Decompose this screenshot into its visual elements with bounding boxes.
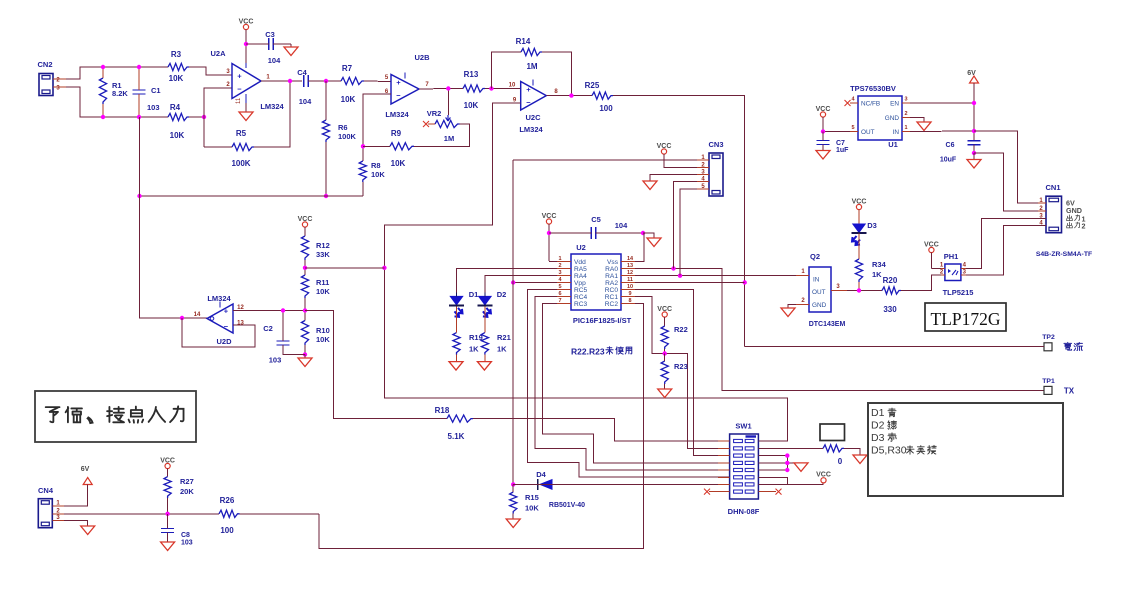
wire CN2 pin3 to bottom rail [66,87,168,117]
svg-text:R26: R26 [220,496,235,505]
resistor R11 [301,275,330,298]
label box yobi setten input [35,391,196,442]
connector CN4 [38,486,64,528]
svg-text:R11: R11 [316,278,329,287]
LED D3 [852,221,877,245]
svg-text:OUT: OUT [812,289,826,296]
transistor Q2 DTC143EM [796,252,847,328]
svg-text:10K: 10K [525,504,539,513]
svg-text:D4: D4 [536,470,546,479]
wire RA4 to D2 [485,276,557,297]
svg-text:VCC: VCC [657,143,672,150]
svg-text:10uF: 10uF [940,157,957,164]
svg-text:U2D: U2D [216,337,232,346]
ground right of R30 [844,448,867,463]
svg-text:R25: R25 [585,81,600,90]
junction R8-R9-minus node [361,144,365,148]
junction C1 top [137,65,141,69]
resistor R30 0 ohm [823,445,844,466]
svg-text:1: 1 [558,256,561,262]
svg-text:VCC: VCC [160,457,175,464]
svg-text:10K: 10K [341,95,356,104]
potentiometer VR2 [427,109,460,143]
resistor R13 [463,70,485,110]
svg-text:CN3: CN3 [708,140,723,149]
photocoupler PH1 TLP5215 [940,252,974,297]
connector CN2 [37,60,66,96]
power 6V CN4 [81,466,92,485]
svg-text:100K: 100K [338,132,357,141]
wire 6V rail down [973,83,975,141]
power 6V battery [967,70,978,83]
svg-text:RC5: RC5 [574,287,588,294]
svg-text:R21: R21 [497,333,511,342]
capacitor C3 [246,30,291,65]
resistor R9 [390,129,414,168]
svg-text:5: 5 [558,284,561,290]
resistor R6 [322,81,356,196]
svg-text:13: 13 [627,263,633,269]
resistor R5 [231,129,254,168]
svg-text:Vss: Vss [607,259,619,266]
svg-text:R27: R27 [180,477,194,486]
svg-text:RC4: RC4 [574,294,588,301]
svg-text:+: + [396,78,401,87]
svg-text:1M: 1M [526,62,537,71]
power VCC SW1 [816,472,831,483]
svg-text:100K: 100K [231,159,250,168]
svg-text:C5: C5 [591,215,601,224]
svg-text:1uF: 1uF [836,147,849,154]
svg-text:1K: 1K [872,270,882,279]
resistor R21 [481,307,510,362]
svg-text:R3: R3 [171,50,182,59]
svg-text:8: 8 [628,298,631,304]
svg-text:LM324: LM324 [207,294,231,303]
junction C2 top node [281,308,285,312]
svg-text:DHN-08F: DHN-08F [728,507,760,516]
wire CN2 pin2 to top rail [66,67,168,79]
wire RA0 to TP1 [635,269,1044,391]
capacitor C6 [940,141,981,164]
svg-text:TP2: TP2 [1042,334,1055,341]
resistor R1 [99,67,128,117]
dip switch SW1 DHN-08F [718,422,770,517]
junction Q2 out node [857,288,861,292]
wire R7 to U2B plus [364,80,391,83]
test point TP1 [1042,378,1075,396]
capacitor C4 [297,68,312,106]
svg-text:5: 5 [851,125,854,131]
op-amp U2A [210,49,284,111]
svg-text:TLP172G: TLP172G [931,309,1001,329]
junction 6V-IN node [972,129,976,133]
wire R25 to current sense net [613,96,745,347]
svg-text:EN: EN [890,101,899,108]
power VCC U1 OUT [816,106,831,132]
svg-text:6V: 6V [967,70,976,77]
svg-text:10: 10 [627,284,633,290]
capacitor C1 [133,67,161,117]
wire RA1 to Q2 [635,275,809,277]
svg-text:RB501V-40: RB501V-40 [549,502,585,509]
svg-text:6: 6 [558,291,561,297]
svg-text:R7: R7 [342,64,353,73]
junction C1 bottom [137,115,141,119]
svg-text:CN1: CN1 [1045,183,1060,192]
svg-text:LM324: LM324 [260,102,284,111]
LED D1 [449,290,478,317]
wire ground rail y196 [139,195,363,197]
svg-text:U2B: U2B [414,53,430,62]
op-amp U2C [509,80,559,135]
svg-text:11: 11 [236,97,242,104]
resistor R10 [301,321,330,346]
svg-text:VR2: VR2 [427,109,442,118]
junction C4-R7-R6 node [324,79,328,83]
power VCC U2A [239,18,254,63]
wire CN3 pin4 to RA0 [674,182,698,269]
svg-text:103: 103 [181,540,193,547]
junction C5 right node [641,231,645,235]
junction R11 bottom node [303,308,307,312]
resistor R14 [516,37,542,71]
wire RA5 to D1 [457,269,558,297]
wire RC3 to SW row4 [543,304,730,463]
junction row5 node [785,468,789,472]
wire OUT wire [823,131,850,133]
wire U2C minus net [384,103,787,441]
no-connect X SW1 row8 right [758,489,781,495]
svg-text:C2: C2 [263,324,273,333]
svg-text:TP1: TP1 [1042,378,1055,385]
svg-text:12: 12 [627,270,633,276]
svg-text:Vpp: Vpp [574,280,586,287]
op-amp U2D [194,294,245,346]
ground Q2 pin2 [781,305,796,317]
svg-text:33K: 33K [316,250,330,259]
wire feedback vertical to U2A minus [204,88,232,147]
capacitor C2 [263,311,305,365]
wire Vss wire [635,233,644,262]
ground CN4 pin3 [64,521,95,535]
svg-text:7: 7 [558,298,561,304]
junction VCC-C5 node [547,231,551,235]
svg-text:R6: R6 [338,123,348,132]
svg-text:D2: D2 [497,290,507,299]
svg-text:13: 13 [237,321,244,327]
svg-text:OUT: OUT [861,129,875,136]
svg-text:R34: R34 [872,260,887,269]
svg-text:NC/FB: NC/FB [861,101,880,108]
resistor R3 [168,50,189,83]
junction U2A output node [288,79,292,83]
LED D2 [477,290,506,317]
wire PH1 pin4 to CN1 pin3 [966,218,1046,268]
svg-text:Q2: Q2 [810,252,820,261]
svg-text:103: 103 [269,356,282,365]
junction U2B out node [446,86,450,90]
capacitor C7 [817,132,850,155]
junction U2C out node [569,93,573,97]
ground below C6 [967,153,981,168]
svg-text:10K: 10K [316,335,330,344]
connector CN3 [697,140,724,196]
svg-text:10K: 10K [170,131,185,140]
svg-text:8.2K: 8.2K [112,89,128,98]
junction OUT node [821,129,825,133]
wire RC5 to SW row6 [528,290,730,477]
no-connect X at VR2 [423,121,435,127]
svg-text:IN: IN [893,129,900,136]
svg-text:CN2: CN2 [37,60,52,69]
wire plus line to R18 drop [305,311,447,419]
svg-text:D1: D1 [871,407,885,419]
regulator U1 TPS76530BV [850,84,910,149]
ground below R19 [449,362,463,371]
wire R20 to PH1 pin2 [901,275,941,291]
svg-text:10: 10 [509,83,516,89]
svg-text:GND: GND [885,115,900,122]
wire R11 to R10 [304,298,306,321]
svg-text:VCC: VCC [816,106,831,113]
junction R1 top [101,65,105,69]
wire R9 left [363,145,390,147]
wire Vpp line [513,282,557,284]
junction row4 node [785,461,789,465]
junction R22-R23 node [663,351,667,355]
svg-text:14: 14 [194,312,201,318]
ground below C7 [816,151,830,160]
power VCC R27 [160,457,175,476]
svg-text:3: 3 [904,97,907,103]
junction RA2 junction [743,280,747,284]
svg-text:D1: D1 [469,290,479,299]
svg-text:Vdd: Vdd [574,259,586,266]
resistor R7 [341,64,364,104]
junction R13-R14 node [489,86,493,90]
svg-text:R15: R15 [525,493,539,502]
resistor R15 [510,484,540,519]
resistor R23 [661,354,688,390]
wire SW1 row5 right [758,469,787,471]
svg-text:VCC: VCC [852,198,867,205]
svg-text:R20: R20 [883,276,898,285]
wire 6V to CN1 pin1 [974,131,1046,203]
svg-text:GND: GND [812,302,827,309]
svg-text:11: 11 [627,277,633,283]
wire R10 to ground node [304,345,306,355]
junction VCC-C3 branch [244,42,248,46]
svg-text:RA0: RA0 [605,266,618,273]
svg-text:C1: C1 [151,86,161,95]
svg-text:TX: TX [1064,387,1075,396]
no-connect X at NC/FB [845,100,851,106]
power VCC R12 [298,216,313,236]
svg-text:U2: U2 [576,243,586,252]
wire R5 feedback left [204,146,232,148]
svg-text:U1: U1 [888,140,898,149]
wire left vertical to U2D [140,117,208,318]
power VCC D3 [852,198,867,224]
wire SW1 row2 right to R30 [758,447,823,449]
svg-text:100: 100 [220,526,234,535]
junction R1 bottom [101,115,105,119]
wire R5 to output [254,81,290,147]
ground below R10 [298,355,312,367]
svg-text:R23: R23 [674,362,688,371]
wire R22 node to SW row2 [665,354,730,449]
svg-text:R8: R8 [371,161,381,170]
svg-text:104: 104 [299,97,312,106]
wire R26 to RC2 rail [240,513,320,515]
op-amp U2B [385,53,430,119]
junction C6 ground node [972,151,976,155]
ground U1 GND pin [910,118,931,131]
svg-text:2: 2 [1082,222,1086,231]
wire R12 to R11 [304,260,306,275]
svg-text:RA5: RA5 [574,266,587,273]
wire IN wire [910,130,974,133]
ground below C8 [161,542,175,551]
wire R4 to feedback node [189,116,204,118]
svg-text:−: − [237,85,242,94]
svg-text:VCC: VCC [924,241,939,248]
svg-text:LM324: LM324 [519,125,543,134]
wire U2B output [419,88,463,91]
junction R4 output [202,115,206,119]
svg-text:VCC: VCC [298,216,313,223]
junction RA0-CN3 node [671,266,675,270]
svg-text:C6: C6 [946,142,955,149]
wire RC4 to SW row5 [535,297,729,470]
junction Vpp node [511,280,515,284]
resistor R8 [359,146,385,196]
wire divider to ADC [305,267,384,269]
junction divider tap node [382,266,386,270]
svg-text:1M: 1M [444,134,454,143]
wire MCLR vertical [512,160,514,484]
resistor R22 [657,306,687,354]
svg-text:VCC: VCC [816,472,831,479]
svg-text:10K: 10K [464,101,479,110]
svg-text:D2: D2 [871,420,885,432]
svg-text:100: 100 [599,104,613,113]
wire R14 left leg [491,52,521,89]
svg-text:CN4: CN4 [38,486,54,495]
wire RA2 wire [635,282,745,284]
svg-text:RC0: RC0 [605,287,619,294]
label box TLP172G [925,303,1006,331]
svg-text:RC2: RC2 [605,301,619,308]
junction D4-R15 node [511,482,515,486]
wire D4 line to SW1 row7 [513,483,729,485]
test point TP2 [1042,334,1055,351]
svg-text:R4: R4 [170,103,181,112]
ground SW1 common [794,463,808,472]
resistor R19 [453,307,483,362]
svg-text:IN: IN [813,277,820,284]
svg-text:VCC: VCC [239,18,254,25]
wire R18 to SW1 row1 [473,419,730,441]
wire SW1 row4 right to ground [758,462,801,464]
no-connect X SW1 row8 left [704,489,730,495]
svg-text:U2A: U2A [210,49,226,58]
resistor R25 [585,81,614,113]
svg-text:104: 104 [268,56,281,65]
svg-text:1K: 1K [469,345,479,354]
resistor R4 [168,103,189,140]
wire SW1 row1 right to common [758,398,787,441]
ground below R15 [506,519,520,528]
junction R10 bottom node [303,352,307,356]
resistor R20 [882,276,901,314]
svg-text:C8: C8 [181,532,190,539]
svg-text:VCC: VCC [542,213,557,220]
svg-text:0: 0 [838,457,843,466]
wire U2D feedback loop [182,318,255,347]
svg-text:D5,R30: D5,R30 [871,445,907,457]
svg-text:10K: 10K [316,287,330,296]
power VCC C5 [542,213,557,261]
wire R9 to VR2 [414,124,470,146]
svg-text:R18: R18 [435,406,450,415]
svg-text:−: − [224,322,229,331]
unmounted part box [820,424,845,441]
svg-text:RC3: RC3 [574,301,588,308]
junction R27-C8 node [165,512,169,516]
svg-text:C4: C4 [297,68,307,77]
svg-text:2: 2 [904,111,907,117]
wire VR2 wiper riser [447,89,449,116]
wire R3 to U2A plus [189,67,232,75]
svg-text:R12: R12 [316,241,330,250]
svg-text:1: 1 [904,125,907,131]
wire U2D plus line [233,310,305,312]
wire SW1 row3 right [758,455,787,457]
ground U2A pin11 [239,103,253,121]
svg-text:LM324: LM324 [385,110,409,119]
wire RC1 to R22 node [635,297,665,354]
notes box LED colors [868,403,1063,496]
svg-text:3: 3 [558,270,561,276]
svg-text:10K: 10K [371,170,385,179]
note R22 R23 unused [571,347,632,357]
power VCC PH1 [924,241,939,268]
svg-text:TPS76530BV: TPS76530BV [850,84,896,93]
svg-text:TLP5215: TLP5215 [943,288,974,297]
wire U2B minus input [363,94,391,146]
svg-text:330: 330 [883,305,897,314]
capacitor C8 [161,514,193,547]
svg-text:5.1K: 5.1K [448,432,465,441]
svg-text:R13: R13 [464,70,479,79]
resistor R26 [219,496,240,535]
svg-text:R22.R23: R22.R23 [571,347,605,357]
wire C4 to R7 [308,80,341,82]
junction rail left node [137,194,141,198]
junction R12-R11 node [303,266,307,270]
wire RC0 to SW row3 [635,290,730,456]
svg-text:GND: GND [1066,206,1082,215]
svg-text:+: + [237,72,242,81]
resistor R34 [855,233,886,290]
wire EN wire [910,102,974,104]
wire R13 to U2C plus [485,88,521,90]
svg-text:R5: R5 [236,129,247,138]
svg-text:U2C: U2C [525,113,541,122]
wire U2C output [546,95,592,97]
